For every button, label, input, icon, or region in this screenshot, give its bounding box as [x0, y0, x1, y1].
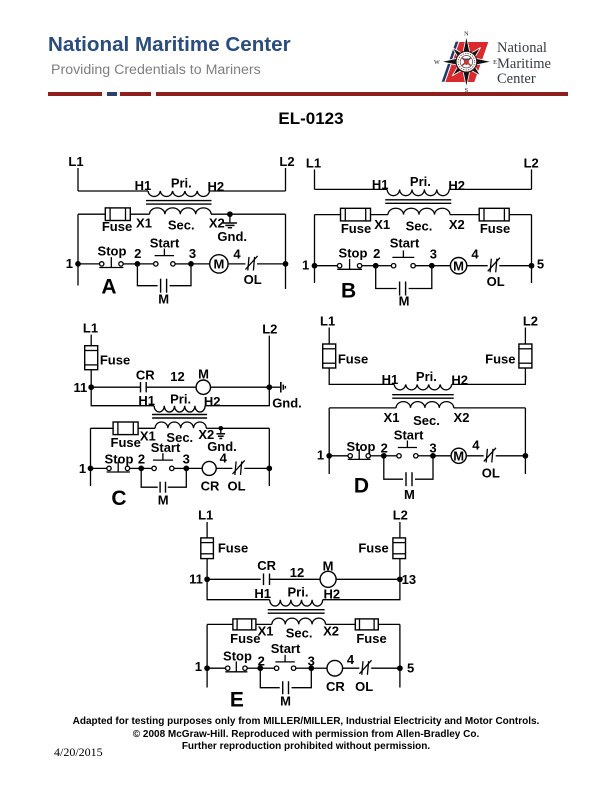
svg-text:H1: H1: [372, 177, 389, 192]
pushbutton Start PB2 (B): [391, 250, 415, 268]
value label Start (B): [390, 235, 420, 250]
logo: compass letter E: [493, 59, 497, 66]
svg-text:M: M: [404, 487, 415, 502]
wire: A X2 to ground node: [211, 213, 230, 215]
value label Start (E): [271, 641, 301, 656]
svg-text:Start: Start: [150, 235, 180, 250]
svg-text:Fuse: Fuse: [480, 221, 510, 236]
header: red rule: [48, 92, 568, 95]
value label M contact (A): [158, 291, 169, 306]
wire: A stop to node 2: [123, 263, 137, 265]
node label 3 (D): [429, 440, 436, 455]
wire: D node1 to stop: [329, 455, 348, 457]
svg-text:OL: OL: [244, 272, 262, 287]
value label Stop (C): [105, 452, 134, 467]
svg-text:1: 1: [79, 461, 86, 476]
node label 11 (E): [189, 572, 203, 587]
relay contact CR (C): [141, 382, 147, 392]
wire: B right rail: [531, 215, 533, 283]
svg-text:1: 1: [66, 256, 73, 271]
pin label H1 (D): [382, 372, 399, 387]
transformer T-E core: [268, 610, 325, 614]
wire: D fuse to primary right: [452, 368, 526, 384]
wire: C OL to right rail: [244, 467, 269, 469]
pin label H2 (E): [323, 586, 340, 601]
svg-text:1: 1: [195, 659, 202, 674]
ground symbol (C right): [269, 382, 285, 393]
svg-text:Start: Start: [151, 440, 181, 455]
header: logo wordmark: [497, 41, 551, 88]
circuit C: terminal label L2: [262, 322, 277, 337]
svg-text:Pri.: Pri.: [416, 369, 437, 384]
fuse F3 (E sec left): [233, 619, 256, 630]
svg-text:Fuse: Fuse: [111, 435, 141, 450]
wire: E stop to node 2: [247, 667, 260, 669]
wire: A OL to right rail: [257, 263, 286, 265]
value label Start (D): [394, 428, 424, 443]
svg-text:11: 11: [189, 572, 203, 587]
svg-text:OL: OL: [482, 465, 500, 480]
junction: D node 3: [430, 453, 436, 459]
wire: E node3 to coil CR: [311, 667, 327, 669]
svg-text:M: M: [453, 448, 464, 463]
svg-text:Fuse: Fuse: [341, 221, 371, 236]
ground symbol (C secondary): [217, 428, 226, 438]
node label 2 (A): [134, 246, 141, 261]
wire: D fuse to primary: [329, 368, 394, 384]
junction: B node 5: [529, 263, 535, 269]
wire: A primary left lead: [78, 190, 148, 192]
node label 3 (E): [308, 654, 315, 669]
wire: B holding branch right-up: [409, 266, 432, 289]
node label 2 (D): [381, 440, 388, 455]
pin label H2 (C): [204, 394, 221, 409]
pin label H2 (B): [448, 178, 465, 193]
svg-text:M: M: [158, 291, 169, 306]
wire: C sec right lead: [221, 427, 269, 429]
svg-text:E: E: [230, 688, 244, 711]
wire: C node11 to CR contact: [91, 386, 140, 388]
wire: E start to node 3: [296, 667, 312, 669]
svg-text:Pri.: Pri.: [410, 174, 431, 189]
wire: E X2 to right fuse: [326, 623, 356, 625]
svg-text:Stop: Stop: [339, 245, 368, 260]
pin label H1 (A): [135, 178, 152, 193]
svg-text:2: 2: [258, 654, 265, 669]
svg-text:3: 3: [429, 440, 436, 455]
svg-text:H1: H1: [254, 586, 271, 601]
wire: D node2 to start: [384, 455, 397, 457]
transformer T-C secondary winding (X1-X2): [155, 422, 206, 428]
svg-text:Fuse: Fuse: [230, 631, 260, 646]
value label M (E coil): [323, 559, 334, 574]
node label 1 (C): [79, 461, 86, 476]
wire: E fuse to node 11: [206, 559, 208, 580]
wire: B OL to node 5: [499, 265, 531, 267]
node label 5 (E): [407, 661, 414, 676]
wire: A fuse to X1: [130, 213, 149, 215]
pin label X1 (B): [374, 217, 390, 232]
fuse F1 (A control fuse): [105, 208, 130, 221]
fuse F1 (E left line fuse): [201, 538, 214, 559]
transformer T-D secondary winding (X1-X2): [396, 402, 454, 408]
pin label H1 (C): [138, 393, 155, 408]
svg-text:C: C: [111, 487, 126, 510]
value label M contact (E): [280, 693, 291, 708]
transformer T-B primary winding (H1-H2): [387, 189, 449, 195]
svg-text:Sec.: Sec.: [286, 625, 313, 640]
junction: A node 3: [188, 261, 194, 267]
wire: D stop to node 2: [370, 455, 383, 457]
node label 3 (A): [189, 246, 196, 261]
svg-text:Stop: Stop: [98, 243, 127, 258]
pin label X1 (C): [140, 429, 156, 444]
wire: C start to node 3: [174, 467, 186, 469]
wire: E coil to node 13: [336, 578, 400, 580]
svg-text:Fuse: Fuse: [102, 219, 132, 234]
wire: C L2 drop: [268, 336, 270, 388]
relay coil M (C): [196, 380, 210, 394]
wire: C right rail: [268, 428, 270, 486]
wire: E OL to node 5: [371, 667, 400, 669]
pin label X2 (E): [323, 623, 339, 638]
svg-text:X2: X2: [454, 410, 470, 425]
junction: A node 2: [135, 261, 141, 267]
wire: B L2 drop: [531, 170, 533, 190]
wire: B node3 to coil M: [432, 265, 451, 267]
svg-text:OL: OL: [487, 274, 505, 289]
wire: C node2 to start: [141, 467, 152, 469]
svg-text:12: 12: [290, 565, 304, 580]
wire: E CR to coil M: [270, 578, 321, 580]
value label CR (E contact): [257, 558, 276, 573]
wire: D node3 to coil M: [433, 455, 451, 457]
svg-text:X1: X1: [374, 217, 390, 232]
wire: D holding branch right-up: [415, 456, 433, 479]
svg-text:5: 5: [407, 661, 414, 676]
node label 11 (C): [74, 380, 88, 395]
wire: B holding branch down-left: [376, 266, 397, 289]
node label 1 (D): [317, 447, 324, 462]
value label Sec. (C): [166, 430, 193, 445]
wire: E node1 to stop: [207, 667, 225, 669]
svg-text:L2: L2: [524, 156, 539, 171]
wire: E node2 to start: [260, 667, 274, 669]
wire: B node2 to start: [376, 265, 392, 267]
node label 13 (E): [402, 572, 416, 587]
circuit label A: [101, 276, 116, 299]
node label 2 (E): [258, 654, 265, 669]
junction: C node 11: [88, 384, 94, 390]
header: agency title: [48, 33, 291, 57]
wire: D right rail: [524, 408, 526, 474]
svg-text:4: 4: [233, 246, 241, 261]
transformer T-C primary winding (H1-H2): [154, 406, 205, 412]
pushbutton Stop PB1 (C): [107, 462, 130, 472]
wire: B right fuse to rail: [509, 214, 531, 216]
svg-text:H2: H2: [448, 178, 465, 193]
wire: A secondary right lead: [230, 213, 286, 215]
junction: E node 11: [204, 576, 210, 582]
wire: E sec right fuse to rail: [378, 623, 400, 625]
node label 12 (C): [170, 369, 184, 384]
value label Pri. (B): [410, 174, 431, 189]
wire: C CR to coil M: [146, 386, 196, 388]
svg-text:12: 12: [170, 369, 184, 384]
svg-text:4: 4: [472, 438, 480, 453]
svg-text:4: 4: [220, 451, 228, 466]
wire: B primary left lead: [315, 188, 388, 190]
svg-text:H1: H1: [135, 178, 152, 193]
contactor coil M (D): [451, 448, 466, 463]
wire: C X2 to ground node: [206, 427, 221, 429]
pushbutton Stop PB1 (E): [225, 661, 247, 671]
node label 3 (B): [430, 246, 437, 261]
wire: D L2 drop to fuse: [524, 328, 526, 344]
svg-text:1: 1: [317, 447, 324, 462]
svg-text:3: 3: [189, 246, 196, 261]
value label Pri. (E): [288, 585, 309, 600]
svg-text:Fuse: Fuse: [485, 351, 515, 366]
wire: E sec left fuse to rail: [207, 623, 233, 625]
svg-text:X1: X1: [384, 410, 400, 425]
svg-text:Stop: Stop: [223, 649, 252, 664]
node label 1 (A): [66, 256, 73, 271]
svg-text:B: B: [341, 279, 356, 302]
value label Stop (A): [98, 243, 127, 258]
svg-text:Start: Start: [271, 641, 301, 656]
value label Fuse (E sec left): [230, 631, 260, 646]
svg-text:X1: X1: [136, 216, 152, 231]
net label Gnd. (A): [217, 229, 247, 244]
node label 4 (C): [220, 451, 228, 466]
title: figure number EL-0123: [5, 109, 612, 129]
svg-text:M: M: [158, 493, 169, 508]
logo: compass rose diagonal star (NE/SE/SW/NW points): [452, 48, 480, 76]
node label 5 (B): [537, 257, 544, 272]
circuit A: terminal label L1: [68, 154, 83, 169]
junction: E node 2: [257, 665, 263, 671]
circuit B: terminal label L2: [524, 156, 539, 171]
wire: E right rail: [399, 624, 401, 687]
value label Fuse (E sec right): [356, 631, 386, 646]
wire: A coil to OL: [228, 263, 245, 265]
wire: C node1 to stop: [91, 467, 107, 469]
node label 1 (E): [195, 659, 202, 674]
header: red rule white gap 3: [151, 92, 156, 95]
svg-text:Fuse: Fuse: [338, 351, 368, 366]
overload contact OL (D): [484, 448, 496, 463]
svg-text:Sec.: Sec.: [406, 218, 433, 233]
wire: A right rail: [285, 214, 287, 289]
wire: C node3 to coil CR: [186, 467, 202, 469]
transformer T-A primary winding (H1-H2): [148, 191, 210, 197]
circuit D: terminal label L2: [523, 314, 538, 329]
svg-text:Fuse: Fuse: [356, 631, 386, 646]
wire: C fuse to X1: [138, 427, 155, 429]
svg-text:X2: X2: [449, 217, 465, 232]
fuse F2 (C secondary): [113, 422, 138, 435]
junction: C right rail node: [266, 466, 272, 472]
wire: E L1 drop to fuse: [206, 522, 208, 538]
transformer T-E secondary winding (X1-X2): [272, 618, 326, 624]
value label M contact (C): [158, 493, 169, 508]
value label Fuse (A): [102, 219, 132, 234]
value label Sec. (B): [406, 218, 433, 233]
transformer T-D primary winding (H1-H2): [394, 384, 452, 389]
svg-text:Pri.: Pri.: [288, 585, 309, 600]
circuit label B: [341, 279, 356, 302]
svg-text:L2: L2: [262, 322, 277, 337]
relay coil CR (E): [327, 660, 343, 676]
auxiliary contact M (C holding): [160, 482, 165, 493]
value label Start (A): [150, 235, 180, 250]
svg-text:Fuse: Fuse: [100, 353, 130, 368]
svg-text:OL: OL: [355, 679, 373, 694]
value label Pri. (A): [171, 175, 192, 190]
value label M (C coil): [198, 366, 209, 381]
node label 4 (B): [471, 246, 479, 261]
wire: B X2 to right fuse: [450, 214, 479, 216]
relay coil M (E): [320, 571, 336, 587]
pin label X2 (C): [198, 427, 214, 442]
value label Fuse (E line right): [358, 541, 388, 556]
relay coil CR (C): [202, 461, 216, 475]
value label OL (B): [487, 274, 505, 289]
pin label H1 (B): [372, 177, 389, 192]
junction: D node 1: [326, 453, 332, 459]
svg-text:4: 4: [347, 652, 355, 667]
wire: B left rail: [314, 215, 316, 283]
value label Stop (E): [223, 649, 252, 664]
wire: E holding branch down-left: [260, 668, 279, 688]
value label CR (C contact): [136, 368, 155, 383]
wire: D left rail: [328, 408, 330, 474]
junction: B node 2: [373, 263, 379, 269]
wire: A secondary left lead to fuse: [78, 213, 106, 215]
svg-text:Pri.: Pri.: [170, 391, 191, 406]
svg-text:L1: L1: [320, 314, 335, 329]
svg-text:CR: CR: [326, 679, 345, 694]
svg-text:L1: L1: [68, 154, 83, 169]
wire: B primary right lead: [449, 188, 531, 190]
wire: C node11 down to primary: [91, 387, 154, 406]
value label OL (C): [227, 478, 245, 493]
wire: A node2 to start: [137, 263, 153, 265]
pin label X2 (A): [209, 215, 225, 230]
svg-text:CR: CR: [201, 478, 220, 493]
svg-text:Gnd.: Gnd.: [217, 229, 247, 244]
junction: D node 2: [381, 453, 387, 459]
value label CR (E coil): [326, 679, 345, 694]
auxiliary contact M (D holding): [406, 472, 412, 486]
junction: C secondary ground node: [219, 426, 224, 431]
svg-text:X1: X1: [258, 623, 274, 638]
svg-text:M: M: [399, 294, 410, 309]
svg-text:H2: H2: [323, 586, 340, 601]
wire: D secondary left lead: [329, 407, 396, 409]
circuit label D: [354, 474, 369, 497]
value label OL (A): [244, 272, 262, 287]
svg-text:H1: H1: [138, 393, 155, 408]
svg-text:M: M: [198, 366, 209, 381]
node label 4 (E): [347, 652, 355, 667]
header: agency subtitle: [51, 62, 261, 78]
wire: B node1 to stop: [315, 265, 338, 267]
svg-text:Sec.: Sec.: [413, 413, 440, 428]
logo: compass letter S: [465, 87, 469, 94]
ground symbol (A secondary): [223, 214, 237, 228]
pin label X1 (E): [258, 623, 274, 638]
wire: E node11 to CR contact: [207, 578, 261, 580]
svg-text:Sec.: Sec.: [168, 217, 195, 232]
svg-text:Pri.: Pri.: [171, 175, 192, 190]
fuse F1 (D left line fuse): [323, 344, 336, 368]
svg-text:M: M: [323, 559, 334, 574]
junction: B node 1: [312, 263, 318, 269]
svg-text:2: 2: [381, 440, 388, 455]
contactor coil M (A): [210, 255, 228, 273]
svg-text:X2: X2: [323, 623, 339, 638]
wire: C fuse to node 11: [90, 370, 92, 388]
auxiliary contact M (E holding): [283, 681, 289, 694]
logo: compass letter W: [434, 59, 440, 66]
transformer T-E primary winding (H1-H2): [270, 600, 323, 606]
wire: C stop to node 2: [130, 467, 142, 469]
svg-text:OL: OL: [227, 478, 245, 493]
header: red rule white gap 2: [117, 92, 120, 95]
wire: C right node down to primary: [205, 387, 269, 406]
svg-text:Stop: Stop: [105, 452, 134, 467]
transformer T-A secondary winding (X1-X2): [150, 208, 212, 214]
svg-text:CR: CR: [136, 368, 155, 383]
relay contact CR (E): [264, 574, 270, 586]
fuse F2 (B right): [479, 208, 509, 221]
header: red rule blue segment: [107, 92, 117, 95]
junction: C node 2: [138, 466, 144, 472]
value label OL (D): [482, 465, 500, 480]
wire: B coil to OL: [467, 265, 488, 267]
svg-text:D: D: [354, 474, 369, 497]
wire: E L2 drop to fuse: [399, 522, 401, 538]
value label Stop (B): [339, 245, 368, 260]
node label 2 (B): [373, 246, 380, 261]
transformer T-C core: [152, 415, 207, 419]
footer: date stamp: [54, 745, 103, 760]
svg-text:3: 3: [430, 246, 437, 261]
value label Fuse (E line left): [218, 541, 248, 556]
svg-text:Fuse: Fuse: [358, 541, 388, 556]
wire: E coil to OL: [343, 667, 360, 669]
circuit label E: [230, 688, 244, 711]
wire: C coil to OL: [216, 467, 232, 469]
wire: A rung node1 to stop: [78, 263, 100, 265]
svg-text:L1: L1: [83, 321, 98, 336]
pin label H2 (D): [451, 372, 468, 387]
value label Sec. (E): [286, 625, 313, 640]
svg-text:M: M: [453, 258, 464, 273]
wire: B L1 drop: [314, 170, 316, 190]
svg-text:3: 3: [308, 654, 315, 669]
value label Fuse (C sec): [111, 435, 141, 450]
wire: E node11 down to primary: [207, 579, 270, 599]
pushbutton Stop PB1 (B): [337, 259, 362, 269]
wire: A holding branch down-left: [137, 264, 157, 286]
transformer T-D core: [392, 395, 454, 399]
value label Fuse (C line): [100, 353, 130, 368]
wire: E right fuse to node 13: [399, 559, 401, 580]
fuse F2 (E right line fuse): [393, 538, 406, 559]
